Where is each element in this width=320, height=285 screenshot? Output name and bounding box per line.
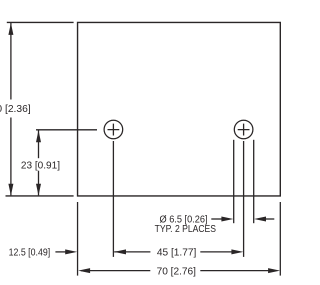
dim 12.5 arrow <box>65 249 77 254</box>
dim 60 line lower segment <box>10 118 12 196</box>
svg-text:TYP. 2 PLACES: TYP. 2 PLACES <box>155 224 217 235</box>
dia right arrow <box>254 217 266 222</box>
dia leader left line <box>211 218 225 220</box>
dim 23 line lower segment <box>38 171 40 196</box>
bottom extension line <box>6 195 74 197</box>
right edge extension line <box>279 202 281 276</box>
hole H1 circle <box>104 120 123 139</box>
svg-text:12.5 [0.49]: 12.5 [0.49] <box>9 248 51 259</box>
dim 70 left arrow <box>78 268 90 273</box>
dim 23 horizontal centerline extension <box>36 129 97 131</box>
svg-text:60 [2.36]: 60 [2.36] <box>0 104 31 115</box>
dim 70 left line segment <box>81 270 150 272</box>
dim 70 right line segment <box>200 270 276 272</box>
top extension line <box>7 21 74 23</box>
svg-text:23 [0.91]: 23 [0.91] <box>21 161 60 172</box>
hole H1 centerline <box>112 141 114 257</box>
panel outline <box>78 22 281 196</box>
dim 45 right line segment <box>200 251 240 253</box>
hole H1 crosshair <box>108 124 120 136</box>
hole H2 crosshair <box>238 124 250 136</box>
dim 45 left arrow <box>114 249 126 254</box>
dim 70 right arrow <box>268 268 280 273</box>
left edge extension line <box>77 202 79 276</box>
hole H2 circle <box>234 120 253 139</box>
svg-text:70 [2.76]: 70 [2.76] <box>157 267 197 278</box>
dim 45 left line segment <box>114 251 150 253</box>
dim 23 line upper segment <box>38 130 40 158</box>
dim 45 right arrow <box>231 249 243 254</box>
dim 60 line upper segment <box>10 23 12 100</box>
dia left arrow <box>221 217 233 222</box>
dia leader right line <box>262 218 274 220</box>
hole H2 left tangent extension line <box>233 140 235 223</box>
hole H2 right tangent extension line <box>253 140 255 223</box>
dim 12.5 leader line <box>55 251 68 253</box>
hole H2 centerline <box>243 141 245 257</box>
dim 60 bottom arrow <box>8 184 13 196</box>
dim 23 top arrow <box>36 130 41 142</box>
svg-text:45 [1.77]: 45 [1.77] <box>157 248 197 259</box>
dim 60 top arrow <box>8 23 13 35</box>
dim 23 bottom arrow <box>36 184 41 196</box>
